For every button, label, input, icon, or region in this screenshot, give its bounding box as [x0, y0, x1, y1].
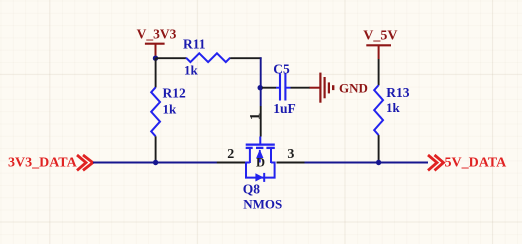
pin of R12 (bottom)	[155, 136, 157, 162]
svg-text:Q8: Q8	[243, 181, 261, 196]
transistor Q8	[243, 137, 282, 212]
ground GND	[310, 73, 368, 103]
svg-text:3V3_DATA: 3V3_DATA	[8, 155, 78, 170]
node junction R12 / data	[153, 160, 158, 165]
pin of R13 (bottom)	[378, 135, 380, 162]
pin 3 of Q8 (black)	[277, 162, 305, 164]
svg-text:1k: 1k	[163, 101, 178, 116]
svg-text:2: 2	[227, 147, 234, 162]
pin of R11 (left)	[156, 57, 187, 59]
resistor R13	[374, 85, 410, 135]
wire net gate (vertical navy)	[260, 57, 262, 106]
svg-text:1: 1	[247, 113, 263, 121]
svg-text:D: D	[256, 156, 265, 170]
svg-text:NMOS: NMOS	[243, 197, 282, 212]
port 5V_DATA	[428, 155, 507, 170]
svg-text:C5: C5	[273, 62, 290, 77]
svg-text:1k: 1k	[386, 100, 401, 115]
svg-text:V_5V: V_5V	[363, 29, 397, 44]
svg-text:R12: R12	[163, 86, 186, 101]
node junction R13 / data	[376, 160, 381, 165]
svg-text:R13: R13	[386, 85, 409, 100]
resistor R12	[151, 86, 186, 137]
svg-text:R11: R11	[183, 37, 206, 52]
resistor R11	[183, 37, 230, 78]
svg-text:3: 3	[287, 147, 294, 162]
svg-text:5V_DATA: 5V_DATA	[445, 155, 508, 170]
pin of R13 (top)	[378, 59, 380, 85]
pin of R11 (right)	[230, 57, 261, 59]
node junction at C5 branch	[258, 85, 263, 90]
svg-text:1k: 1k	[184, 62, 199, 77]
pin of C5 (right, to gnd)	[291, 87, 311, 89]
pin 2 of Q8 (black)	[217, 162, 246, 164]
svg-text:1uF: 1uF	[273, 101, 296, 116]
svg-text:V_3V3: V_3V3	[137, 27, 177, 42]
wire data line right (navy)	[305, 162, 429, 164]
port 3V3_DATA	[8, 155, 93, 170]
power symbol V_3V3	[137, 27, 177, 57]
pin of R12 (top)	[155, 58, 157, 87]
wire data line left (navy)	[93, 162, 217, 164]
power symbol V_5V	[363, 29, 397, 59]
capacitor C5	[262, 62, 296, 116]
pin of Q8 gate (black)	[260, 106, 262, 137]
node junction V_3V3 net	[153, 56, 158, 61]
svg-text:GND: GND	[339, 80, 368, 95]
